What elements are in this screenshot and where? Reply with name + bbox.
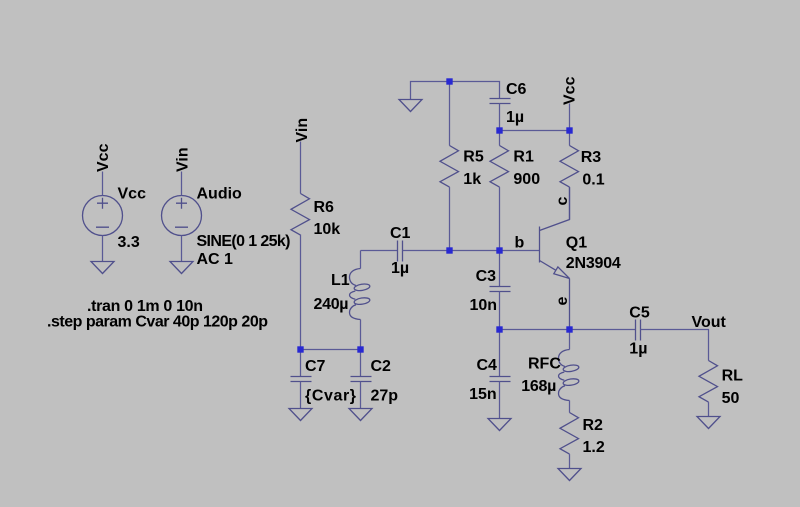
svg-text:Vcc: Vcc (95, 143, 112, 172)
capacitor C1 (398, 241, 403, 262)
svg-text:Audio: Audio (197, 186, 243, 203)
capacitor C4 (490, 330, 511, 419)
svg-text:C1: C1 (390, 225, 411, 242)
svg-text:10k: 10k (314, 221, 341, 238)
wire (102, 236, 104, 262)
inductor L1 (350, 251, 371, 350)
ground (488, 419, 511, 431)
ground (170, 262, 193, 274)
svg-text:R2: R2 (583, 417, 604, 434)
wire (403, 250, 540, 252)
ground (399, 100, 422, 112)
node junction (297, 346, 303, 352)
svg-text:C6: C6 (506, 81, 527, 98)
svg-text:C7: C7 (305, 358, 326, 375)
svg-text:.tran 0 1m 0 10n: .tran 0 1m 0 10n (87, 298, 203, 315)
transistor Q1 2N3904 (540, 187, 570, 329)
ground (697, 417, 720, 429)
svg-text:168µ: 168µ (521, 378, 556, 395)
capacitor C3 (490, 251, 511, 330)
svg-text:Vout: Vout (692, 314, 727, 331)
ground (289, 409, 312, 421)
ground (349, 409, 372, 421)
svg-text:.step param Cvar 40p 120p 20p: .step param Cvar 40p 120p 20p (47, 314, 268, 331)
node junction (496, 247, 502, 253)
svg-text:R6: R6 (314, 199, 335, 216)
resistor RL (699, 361, 718, 417)
wire (102, 172, 104, 196)
capacitor C2 (351, 350, 372, 409)
node junction (566, 326, 572, 332)
svg-text:C3: C3 (476, 268, 497, 285)
svg-text:SINE(0 1 25k): SINE(0 1 25k) (197, 233, 291, 250)
wire emitter rail (500, 329, 636, 331)
capacitor C6 (490, 99, 511, 104)
svg-text:0.1: 0.1 (582, 172, 604, 189)
svg-text:3.3: 3.3 (118, 234, 140, 251)
svg-text:AC 1: AC 1 (197, 251, 234, 268)
inductor RFC (559, 330, 580, 413)
voltage source V1 Vcc (83, 196, 123, 236)
wire (301, 349, 361, 351)
svg-text:10n: 10n (470, 297, 498, 314)
svg-text:Vin: Vin (175, 147, 192, 172)
capacitor C5 (636, 320, 641, 341)
wire (181, 172, 183, 196)
wire (300, 142, 302, 194)
svg-text:e: e (554, 297, 571, 306)
svg-text:900: 900 (513, 171, 540, 188)
svg-text:b: b (515, 235, 525, 252)
svg-text:L1: L1 (331, 272, 350, 289)
svg-text:2N3904: 2N3904 (566, 255, 621, 272)
resistor R6 (291, 194, 310, 236)
svg-text:RL: RL (722, 368, 744, 385)
svg-text:1µ: 1µ (391, 260, 409, 277)
svg-text:{Cvar}: {Cvar} (305, 388, 356, 405)
ground (558, 469, 581, 481)
wire (569, 104, 571, 131)
resistor R2 (560, 413, 579, 469)
svg-text:1.2: 1.2 (583, 439, 605, 456)
svg-text:R1: R1 (513, 149, 534, 166)
svg-text:RFC: RFC (528, 356, 561, 373)
node junction (496, 326, 502, 332)
voltage source V2 Audio (162, 196, 202, 236)
resistor R3 (560, 131, 579, 220)
ground (91, 262, 114, 274)
svg-text:240µ: 240µ (314, 296, 349, 313)
node junction (446, 78, 452, 84)
svg-text:1k: 1k (463, 171, 481, 188)
svg-text:R3: R3 (581, 149, 602, 166)
svg-text:c: c (554, 197, 571, 206)
svg-text:50: 50 (722, 390, 740, 407)
svg-text:Vcc: Vcc (562, 76, 579, 105)
svg-text:1µ: 1µ (629, 341, 647, 358)
wire (361, 250, 398, 252)
svg-text:C2: C2 (371, 358, 392, 375)
svg-text:Q1: Q1 (566, 235, 587, 252)
node junction (446, 247, 452, 253)
svg-text:Vcc: Vcc (118, 186, 147, 203)
node junction (566, 127, 572, 133)
wire (641, 330, 709, 361)
svg-text:27p: 27p (371, 388, 399, 405)
wire (181, 236, 183, 262)
svg-text:Vin: Vin (294, 118, 311, 143)
wire top rail (411, 82, 500, 100)
resistor R1 (490, 131, 509, 251)
node junction (496, 127, 502, 133)
svg-text:1µ: 1µ (506, 109, 524, 126)
svg-text:15n: 15n (469, 386, 497, 403)
capacitor C7 (291, 350, 312, 409)
svg-text:C4: C4 (477, 357, 498, 374)
wire Vcc rail (500, 130, 570, 132)
svg-text:R5: R5 (463, 149, 484, 166)
wire (499, 104, 501, 131)
svg-text:C5: C5 (629, 305, 650, 322)
wire (300, 235, 302, 350)
resistor R5 (440, 82, 459, 251)
node junction (357, 346, 363, 352)
